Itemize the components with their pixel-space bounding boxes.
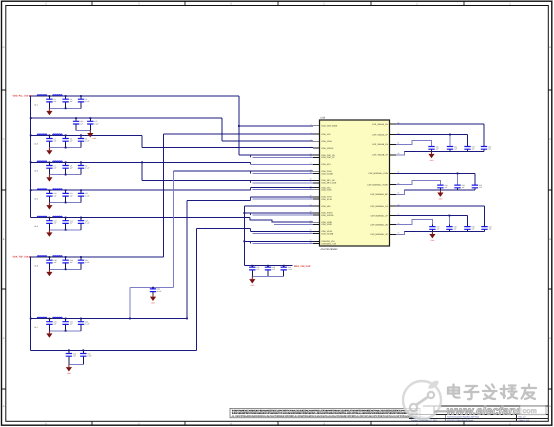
svg-text:BL6: BL6 [35, 264, 38, 267]
capacitor C17 [87, 118, 99, 130]
junction [243, 212, 245, 214]
junction [80, 318, 82, 320]
inductor BL2 coil2 [53, 134, 63, 135]
inductor BL2 coil1 [37, 134, 47, 135]
wire row2 cap bottom rail [76, 129, 90, 131]
svg-text:D: D [549, 46, 551, 49]
wire BL1 pin lead [37, 95, 64, 97]
junction row4 [141, 161, 143, 163]
wire to pin DDA_V18 [163, 133, 313, 135]
wire pair lower [253, 173, 314, 175]
wire toward DDA_VD18 [197, 228, 251, 230]
wire fork [250, 229, 252, 232]
wire group C bottom rail [405, 230, 485, 232]
U1 left pins [310, 123, 338, 245]
inductor BL5 coil1 [37, 216, 47, 217]
junction [65, 256, 67, 258]
wire pair fork [250, 213, 252, 215]
capacitor C16 [73, 118, 83, 130]
junction [68, 349, 70, 351]
svg-text:1uF: 1uF [489, 228, 492, 231]
wire tap to C38 [448, 216, 450, 225]
svg-text:1uF: 1uF [445, 186, 448, 189]
junction [65, 161, 67, 163]
wire CAP_NORMAL_2P jog [396, 231, 414, 234]
op-amp U1 (power block ADV7612) [320, 117, 390, 251]
ground bottom caps [66, 365, 72, 376]
svg-text:A: A [3, 405, 5, 408]
junction [65, 217, 67, 219]
junction [65, 202, 67, 204]
svg-text:VDA_TXF_1V8: VDA_TXF_1V8 [13, 255, 30, 258]
svg-text:1uF: 1uF [54, 194, 57, 197]
wire rail BL6 [31, 256, 164, 258]
svg-text:1uF: 1uF [70, 323, 73, 326]
wire to pin DDA_VDD18 [142, 147, 313, 149]
wire CAP_SMA1B_1N staircase [396, 141, 432, 147]
wire to pin DDA_V50 [244, 205, 313, 207]
capacitor C19 [62, 257, 72, 269]
svg-text:BL7: BL7 [35, 326, 38, 329]
junction [449, 215, 451, 217]
svg-text:DDA_CONB: DDA_CONB [322, 172, 334, 175]
wire to pin DDA_PV18 [253, 198, 314, 200]
wire to pin DDA_VDD_MAIN [239, 125, 313, 127]
wire rail BL2 [31, 134, 142, 136]
wire BL3 pin lead [37, 161, 64, 163]
wire pair lower [253, 243, 314, 245]
capacitor C18 [46, 257, 56, 269]
junction [243, 240, 245, 242]
svg-text:1uF: 1uF [54, 222, 57, 225]
svg-text:VDD_PLL_1V0: VDD_PLL_1V0 [13, 94, 30, 97]
svg-text:DDA_CAP_1P: DDA_CAP_1P [322, 156, 336, 159]
svg-text:DDA_PV18: DDA_PV18 [322, 198, 333, 201]
svg-text:1uF: 1uF [454, 148, 457, 151]
ground below C10 [46, 203, 52, 210]
capacitor C30 [428, 145, 438, 151]
wire down to C33 [483, 124, 485, 147]
wire VDD_PLL vertical to U1 [238, 96, 240, 155]
junction [80, 95, 82, 97]
inductor BL6 coil1 [37, 256, 47, 257]
svg-text:DDA_V18A: DDA_V18A [322, 140, 333, 143]
wire pair lower [253, 214, 314, 216]
junction [65, 147, 67, 149]
svg-text:0.1uF: 0.1uF [85, 100, 89, 103]
capacitor C15 [78, 218, 90, 230]
wire down to C32 [467, 135, 469, 147]
svg-text:DDA_AP1: DDA_AP1 [322, 163, 332, 166]
junction coil midpoint [49, 95, 51, 97]
wire bottom caps join [69, 364, 83, 366]
svg-text:1uF: 1uF [462, 186, 465, 189]
svg-text:DDA_VDD_MAIN: DDA_VDD_MAIN [322, 125, 338, 128]
wire toward DDA_TV18 [187, 199, 251, 201]
net label DDA_V18_CAP [294, 265, 311, 268]
junction trunk2 [30, 318, 32, 320]
junction coil midpoint [49, 318, 51, 320]
wire VDD_PLL trunk vertical [30, 96, 32, 218]
wire CAP_NORMAL_1N [396, 205, 485, 207]
junction [80, 256, 82, 258]
capacitor C40 [481, 225, 491, 232]
reference label BL7 [35, 326, 38, 329]
wire CAP_NORMAL_SVDD staircase [396, 181, 440, 185]
inductor BL3 coil1 [37, 161, 47, 162]
svg-text:DDA_V18: DDA_V18 [322, 133, 332, 136]
capacitor C9 [78, 162, 90, 174]
wire to pin DDA_V18C [253, 189, 314, 191]
svg-text:A: A [3, 337, 5, 340]
watermark logo circle [403, 381, 441, 419]
svg-text:CAP_NORMAL_CON: CAP_NORMAL_CON [368, 172, 388, 175]
svg-text:1uF: 1uF [436, 148, 439, 151]
junction [80, 134, 82, 136]
wire rail BL3 [31, 161, 251, 163]
svg-text:CAP_NORMAL_SVDD: CAP_NORMAL_SVDD [367, 183, 388, 186]
wire to pin DDA_V18A [222, 140, 313, 142]
svg-text:0.1uF: 0.1uF [94, 122, 98, 125]
reference label BL5 [35, 225, 38, 228]
wire rail BL1 [31, 95, 239, 97]
wire row6 to DDA_V18B [250, 218, 313, 223]
svg-text:DDA_V50: DDA_V50 [322, 205, 332, 208]
svg-text:DDA_NF1_CON: DDA_NF1_CON [322, 182, 337, 185]
watermark www.elecfans text [434, 405, 546, 417]
svg-text:0.1uF: 0.1uF [288, 268, 292, 271]
svg-text:—www.elecfans: —www.elecfans [434, 405, 522, 417]
capacitor C5 [62, 135, 72, 147]
wire BL7 net up to U1 [186, 200, 188, 318]
wire row2 rail [31, 117, 222, 119]
wire down to C36 [474, 173, 476, 184]
capacitor C3 [78, 96, 90, 108]
svg-text:BL5: BL5 [35, 225, 38, 228]
svg-text:CAP_SMA1A_1P: CAP_SMA1A_1P [372, 133, 388, 136]
watermark chinese characters [448, 385, 536, 400]
svg-text:1uF: 1uF [54, 167, 57, 170]
wire CAP_NORMAL_CON [396, 172, 475, 174]
capacitor C33 [481, 145, 491, 151]
svg-text:DDA_SVDD2: DDA_SVDD2 [322, 214, 335, 217]
svg-text:DDA_V18_CAP: DDA_V18_CAP [294, 265, 311, 268]
wire CAP_SMA1A_1P [396, 134, 468, 136]
svg-text:0.1uF: 0.1uF [85, 194, 89, 197]
svg-text:DDAVDDC_V18: DDAVDDC_V18 [322, 242, 337, 245]
svg-text:1uF: 1uF [472, 148, 475, 151]
svg-text:DDA_V18C: DDA_V18C [322, 189, 333, 192]
capacitor C2 [62, 96, 72, 108]
svg-text:com: com [523, 408, 537, 415]
reference label BL6 [35, 264, 38, 267]
svg-text:1uF: 1uF [73, 355, 76, 358]
capacitor C10 [46, 190, 56, 202]
svg-text:CAP_NORMAL_1P: CAP_NORMAL_1P [370, 214, 388, 217]
wire cap bottom rail [49, 268, 81, 270]
inductor BL6 coil2 [53, 256, 63, 257]
svg-text:C: C [3, 138, 5, 141]
capacitor C4 [46, 135, 56, 147]
wire CAP_NORMAL_2N staircase [396, 219, 432, 224]
svg-text:1uF: 1uF [54, 100, 57, 103]
wire 3cap bottom rail [252, 276, 283, 278]
wire fork [250, 197, 252, 201]
wire BL6 pin lead [37, 256, 64, 258]
wire to pin DDAVDD_V18 [244, 240, 313, 242]
ground below C13 [46, 230, 52, 237]
wire group B bottom rail [405, 189, 475, 191]
wire cap bottom rail [49, 229, 81, 231]
U1 right pins [367, 121, 399, 236]
reference label BL4 [35, 198, 38, 201]
wire fork [250, 188, 252, 191]
wire to pin DDA_NF1_1N [142, 179, 313, 181]
svg-text:ADV7612 Video Board Power: ADV7612 Video Board Power [447, 419, 474, 422]
capacitor C24 [150, 288, 162, 294]
svg-text:A: A [549, 337, 551, 340]
ground below C1 [46, 108, 52, 115]
wire bottom caps vertical [196, 229, 198, 351]
junction coil midpoint [49, 256, 51, 258]
ground group B [437, 190, 443, 201]
svg-text:C: C [549, 138, 551, 141]
wire rail BL4 [31, 189, 251, 191]
inductor BL4 coil1 [37, 189, 47, 190]
reference label BL2 [35, 143, 38, 146]
wire cap bottom rail [49, 147, 81, 149]
ground standalone cap [150, 294, 156, 305]
capacitor C34 [437, 184, 447, 190]
svg-text:0.1uF: 0.1uF [87, 355, 91, 358]
junction [457, 173, 459, 175]
junction coil midpoint [49, 189, 51, 191]
junction [75, 117, 77, 119]
junction on BL7 rail [129, 318, 131, 320]
wire BL5 pin lead [37, 217, 64, 219]
wire to pin DDA_CON [173, 170, 313, 172]
wire VDA_TXF trunk vertical [30, 257, 32, 350]
capacitor C11 [62, 190, 72, 202]
wire BL2 pin lead [37, 134, 64, 136]
svg-text:1uF: 1uF [472, 228, 475, 231]
svg-text:0.1uF: 0.1uF [157, 290, 161, 293]
junction coil midpoint [49, 134, 51, 136]
svg-text:CAP_SMA1B_1N: CAP_SMA1B_1N [372, 143, 388, 146]
wire to pin DDA_CAP_1N [239, 154, 313, 156]
junction [65, 95, 67, 97]
reference label BL1 [35, 103, 38, 106]
capacitor C27 [249, 266, 259, 277]
wire rail BL5 [31, 217, 251, 219]
junction [80, 217, 82, 219]
svg-text:1uF: 1uF [70, 100, 73, 103]
wire CAP_NORMAL_1P [396, 215, 467, 217]
junction [89, 117, 91, 119]
capacitor C37 [429, 225, 439, 232]
junction [65, 330, 67, 332]
junction VDD_PLL branch [238, 125, 240, 127]
wire cap bottom rail [49, 330, 81, 332]
svg-text:1uF: 1uF [54, 323, 57, 326]
capacitor C38 [446, 225, 456, 232]
wire CAP_SMA1B_1P jog [396, 151, 414, 155]
svg-text:1uF: 1uF [70, 140, 73, 143]
svg-text:1uF: 1uF [70, 194, 73, 197]
svg-text:Sheet 2 of 8: Sheet 2 of 8 [519, 419, 531, 422]
capacitor C6 [78, 135, 90, 147]
wire CAP_NORMAL_BP jog [396, 190, 414, 195]
svg-text:BL3: BL3 [35, 170, 38, 173]
wire group A bottom rail [405, 150, 485, 152]
junction BL7 rail [186, 318, 188, 320]
junction standalone cap [152, 287, 154, 289]
inductor BL5 coil2 [53, 216, 63, 217]
svg-text:BL1: BL1 [35, 103, 38, 106]
ground below C4 [46, 148, 52, 155]
svg-text:B: B [3, 238, 5, 241]
wire row4 branch down [141, 162, 143, 180]
inductor BL1 coil2 [53, 95, 63, 96]
svg-text:CAP_SMA1A_1N: CAP_SMA1A_1N [372, 123, 388, 126]
wire bottom caps rail [31, 349, 197, 351]
svg-text:ADV7612BSWZ: ADV7612BSWZ [321, 248, 339, 251]
wire standalone cap rail [130, 287, 174, 289]
svg-text:1uF: 1uF [70, 167, 73, 170]
junction [82, 349, 84, 351]
svg-text:A: A [549, 405, 551, 408]
capacitor C29 [281, 266, 293, 277]
wire fork [250, 162, 252, 164]
capacitor C28 [265, 266, 275, 277]
svg-text:CAP_NORMAL_2N: CAP_NORMAL_2N [370, 223, 388, 226]
wire BL4 pin lead [37, 189, 64, 191]
title block [409, 406, 548, 422]
wire cap bottom rail [49, 107, 81, 109]
svg-text:1uF: 1uF [80, 122, 83, 125]
inductor BL1 coil1 [37, 95, 47, 96]
wire BL7 pin lead [37, 318, 64, 320]
wire cap bottom rail [49, 174, 81, 176]
capacitor C32 [464, 145, 474, 151]
svg-text:1uF: 1uF [479, 186, 482, 189]
capacitor C8 [62, 162, 72, 174]
junction [65, 174, 67, 176]
capacitor C7 [46, 162, 56, 174]
svg-text:CAP_SMA1B_1P: CAP_SMA1B_1P [372, 154, 388, 157]
svg-text:1uF: 1uF [256, 268, 259, 271]
junction [251, 265, 253, 267]
wire to pin DDA_TV18 [251, 196, 314, 198]
junction coil midpoint [49, 161, 51, 163]
svg-text:B: B [549, 238, 551, 241]
reference label BL3 [35, 170, 38, 173]
ground 3cap group [249, 277, 255, 288]
svg-text:CAP_NORMAL_BP: CAP_NORMAL_BP [370, 193, 388, 196]
junction [80, 161, 82, 163]
wire VDA_TXF up to U1 [162, 134, 164, 257]
junction trunk [30, 189, 32, 191]
junction [449, 134, 451, 136]
capacitor C25 [66, 350, 76, 364]
svg-text:CAP_NORMAL_2P: CAP_NORMAL_2P [370, 233, 388, 236]
junction trunk [30, 134, 32, 136]
wire DDA_V18_CAP vertical [243, 206, 245, 266]
wire tap to C31 [449, 135, 451, 147]
wire down to C40 [484, 206, 486, 225]
junction [65, 189, 67, 191]
svg-text:0.1uF: 0.1uF [85, 261, 89, 264]
svg-text:1uF: 1uF [54, 140, 57, 143]
svg-text:DDA_VD18B: DDA_VD18B [322, 232, 334, 235]
junction [80, 189, 82, 191]
junction [283, 265, 285, 267]
wire row2 down [221, 118, 223, 141]
wire rail BL7 [31, 318, 187, 320]
svg-text:1uF: 1uF [54, 261, 57, 264]
svg-text:BL2: BL2 [35, 143, 38, 146]
capacitor C22 [62, 319, 72, 331]
inductor BL7 coil2 [53, 317, 63, 318]
wire to pin DDA_AP1 [251, 163, 314, 165]
junction [65, 134, 67, 136]
capacitor C14 [62, 218, 72, 230]
wire row3 down [141, 135, 143, 147]
wire to pin DDA_V33 [251, 187, 314, 189]
junction [65, 318, 67, 320]
wire to pin DDA_VD18B [253, 233, 314, 235]
ground below C18 [46, 269, 52, 276]
capacitor C12 [78, 190, 90, 202]
wire tap to C35 [457, 173, 459, 184]
wire down to C39 [466, 216, 468, 225]
wire DDA_V18_CAP rail [244, 265, 292, 267]
inductor BL4 coil2 [53, 189, 63, 190]
notes text box [230, 408, 420, 418]
junction [267, 265, 269, 267]
junction trunk [30, 161, 32, 163]
svg-text:0.1uF: 0.1uF [85, 323, 89, 326]
wire cap bottom rail [49, 202, 81, 204]
ground group A [428, 151, 434, 162]
inductor BL3 coil2 [53, 161, 63, 162]
wire pair fork [250, 171, 252, 173]
svg-text:0.1uF: 0.1uF [85, 222, 89, 225]
svg-text:BL4: BL4 [35, 198, 38, 201]
ground group C [429, 231, 435, 242]
capacitor C23 [78, 319, 90, 331]
svg-text:D: D [3, 46, 5, 49]
svg-text:0.1uF: 0.1uF [85, 140, 89, 143]
junction [65, 229, 67, 231]
junction coil midpoint [49, 217, 51, 219]
svg-text:ALL CAPACITORS ARE IN MICROFAR: ALL CAPACITORS ARE IN MICROFARADS UNLESS… [232, 415, 419, 418]
junction [65, 107, 67, 109]
svg-text:1uF: 1uF [70, 261, 73, 264]
svg-text:1uF: 1uF [454, 228, 457, 231]
ground below C7 [46, 175, 52, 182]
svg-text:DDA_V18D: DDA_V18D [322, 223, 333, 226]
inductor BL7 coil1 [37, 317, 47, 318]
svg-text:THIS SCHEMATIC IS PROVIDED AS: THIS SCHEMATIC IS PROVIDED AS IS WITHOUT… [232, 412, 419, 415]
net label VDA_TXF_1V8 [13, 255, 31, 258]
wire standalone branch down [129, 288, 131, 319]
capacitor C20 [78, 257, 90, 269]
wire to pin DDA_SVDD [244, 212, 313, 214]
wire pair fork [250, 241, 252, 243]
wire cap tap vertical [172, 171, 174, 288]
capacitor C36 [472, 184, 482, 190]
